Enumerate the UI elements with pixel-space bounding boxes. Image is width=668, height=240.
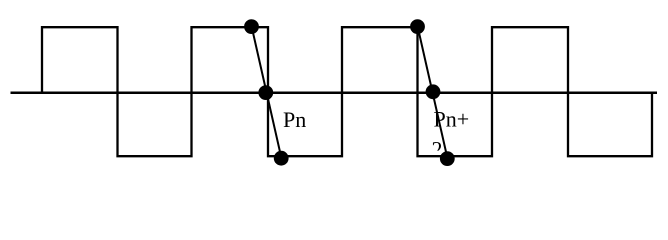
svg-text:Pn+: Pn+ xyxy=(434,107,470,132)
node middle dot 2 xyxy=(426,84,441,99)
wire (slanted sampling line 2) xyxy=(418,26,448,159)
svg-text:Pn: Pn xyxy=(283,107,306,132)
node middle dot 1 xyxy=(258,85,273,100)
wire (slanted sampling line 1) xyxy=(252,26,282,159)
node bottom dot 1 xyxy=(274,151,289,166)
wire (square wave trace) xyxy=(42,27,652,156)
node bottom dot 2 xyxy=(440,151,455,166)
node top dot 1 xyxy=(244,19,259,34)
node top dot 2 xyxy=(410,19,425,34)
axis (horizontal time axis) xyxy=(11,91,658,94)
node label 2 (clipped second line of Pn+2) xyxy=(432,137,443,162)
